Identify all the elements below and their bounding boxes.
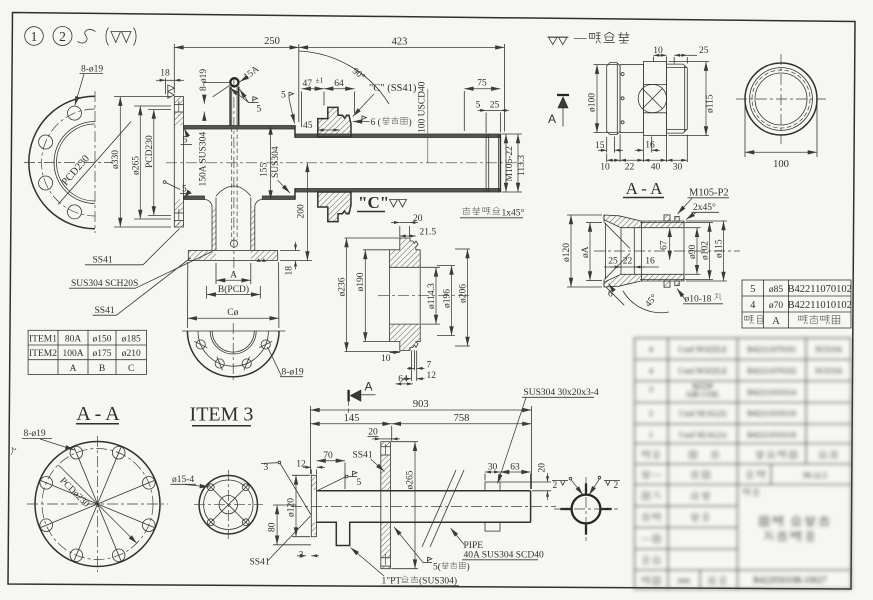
svg-text:7: 7 (427, 361, 432, 371)
label PIPE (451, 528, 544, 561)
svg-text:22: 22 (623, 257, 633, 267)
svg-text:5(: 5( (433, 562, 441, 573)
title A - A top (623, 179, 664, 198)
svg-text:5: 5 (183, 136, 188, 146)
coupling side view part4 thread end (667, 64, 688, 133)
svg-text:64: 64 (398, 374, 408, 384)
dim o102 (685, 223, 713, 280)
tee flange bottom view top edge (182, 330, 286, 332)
svg-text:5: 5 (182, 185, 187, 195)
svg-text:AIR COIL: AIR COIL (685, 390, 720, 399)
branch left wall (205, 198, 217, 251)
blurred CJK blobs (642, 451, 839, 585)
svg-text:SS41: SS41 (353, 451, 373, 461)
svg-text:SUS304 SCH20S: SUS304 SCH20S (71, 279, 138, 289)
svg-text:1x45°: 1x45° (502, 208, 525, 219)
8 bolt holes (40, 446, 155, 561)
svg-text:150A SUS304: 150A SUS304 (199, 132, 209, 187)
svg-text:SUS316: SUS316 (815, 345, 842, 354)
svg-text:10: 10 (600, 163, 610, 173)
svg-text:64: 64 (334, 79, 344, 89)
title C (357, 193, 389, 212)
tee flange bolt circle arc (198, 331, 268, 366)
finish symbol (vv) (106, 28, 136, 46)
svg-text:1: 1 (649, 431, 653, 440)
150A pipe top wall (184, 126, 296, 130)
label 8-o19 vertical (199, 69, 230, 121)
svg-text:Cool NOZZLE: Cool NOZZLE (678, 345, 727, 354)
weld flange plate (174, 97, 183, 227)
dim o330 (111, 97, 171, 227)
label M105-P2 (678, 188, 730, 215)
title A-A bottom left (76, 403, 120, 425)
C-section flange body outline top (390, 238, 421, 267)
svg-text:Cool NOZZLE: Cool NOZZLE (678, 367, 727, 376)
balloon 1 (25, 27, 44, 46)
label SS41 upper (85, 229, 180, 266)
svg-text:B42211070102: B42211070102 (747, 367, 796, 376)
svg-text:2: 2 (59, 29, 66, 44)
label SS41 item3 (353, 451, 385, 472)
label SS41 bottom (250, 516, 311, 568)
150A pipe bottom wall right (262, 196, 295, 200)
dim 67 (659, 228, 669, 260)
svg-text:ø85: ø85 (769, 285, 784, 295)
svg-text:8-ø19: 8-ø19 (282, 368, 304, 378)
svg-text:4: 4 (649, 367, 653, 376)
svg-text:PCD230: PCD230 (145, 135, 155, 168)
svg-text:B42211010114: B42211010114 (747, 388, 796, 397)
dim o120 (562, 215, 602, 287)
left flange bore arc (56, 124, 95, 201)
svg-text:PIPE: PIPE (464, 541, 484, 551)
svg-text:80: 80 (268, 522, 278, 532)
svg-text:B42205010B-10027: B42205010B-10027 (753, 575, 827, 585)
coupling face view (736, 54, 826, 144)
label 5 left-right-open (394, 527, 470, 573)
label 100 USCD40 (418, 81, 428, 162)
weld label 5 at reducer (281, 91, 295, 124)
label SUS304 with leader (271, 146, 290, 193)
knurl circle X (638, 84, 666, 112)
svg-text:ø15-4: ø15-4 (172, 475, 194, 485)
dims 47 64 (302, 76, 355, 128)
support bracket C top (318, 107, 351, 137)
svg-text:mm: mm (678, 576, 691, 585)
C-section centerline (378, 295, 471, 297)
bolt hole 247.5deg (68, 205, 82, 219)
dim 16 (635, 137, 660, 153)
svg-text:10: 10 (381, 354, 391, 364)
item3 big flange (381, 442, 391, 569)
svg-text:20: 20 (368, 428, 378, 438)
dim o115 (669, 62, 716, 136)
svg-text:ø210: ø210 (122, 349, 141, 359)
finish marks after C (390, 200, 407, 208)
svg-text:ø115: ø115 (714, 239, 724, 258)
svg-text:ITEM 3: ITEM 3 (190, 404, 254, 426)
AA thread bumps (664, 215, 679, 287)
C-section bore sides (389, 267, 391, 324)
dim o265 (131, 106, 171, 219)
svg-text:): ) (467, 562, 470, 573)
dim 12 (296, 460, 325, 475)
bolt hole 22.5 (259, 340, 272, 349)
note chamfer 1x45 (460, 207, 525, 219)
svg-text:C: C (128, 364, 134, 374)
dim o90 (685, 228, 701, 275)
svg-text:ø265: ø265 (131, 156, 141, 175)
svg-text:"C": "C" (358, 193, 389, 212)
svg-text:Cool SEAL(2): Cool SEAL(2) (679, 409, 726, 418)
svg-text:25: 25 (608, 257, 618, 267)
label 1 PT thread (351, 548, 460, 587)
svg-text:5: 5 (357, 478, 362, 488)
dim 155 (260, 126, 271, 200)
item3 centerline (291, 506, 556, 508)
svg-text:ø206: ø206 (458, 284, 468, 303)
svg-text:70: 70 (323, 451, 333, 461)
svg-text:A: A (70, 364, 77, 374)
left flange front view outer arc (29, 96, 95, 228)
tee saddle dome (216, 186, 251, 196)
svg-text:ø114.3: ø114.3 (427, 283, 437, 309)
branch bottom center hole (230, 240, 237, 247)
svg-text:(SUS304): (SUS304) (419, 576, 457, 587)
weld label 5 upper at flange (181, 128, 193, 145)
label 8-o19 lower (268, 347, 304, 378)
dim 7 (407, 361, 432, 371)
general tolerance finish symbol (548, 37, 569, 44)
dim 25 top (674, 46, 709, 64)
svg-text:155: 155 (260, 163, 270, 178)
150A pipe bottom wall left (184, 196, 205, 200)
left flange centerline vertical (94, 91, 96, 233)
svg-text:80A: 80A (65, 335, 82, 345)
break lines (422, 470, 456, 547)
item3 pipe bottom with PT boss (317, 522, 531, 545)
pipe end face (499, 134, 501, 192)
support bracket C bottom (318, 192, 351, 222)
svg-text:12: 12 (427, 371, 437, 381)
svg-text:B42211010102: B42211010102 (788, 300, 852, 311)
tee flange center dash (232, 323, 234, 382)
svg-text:12: 12 (296, 460, 306, 470)
hidden bore lines in branch (231, 128, 233, 241)
PCD radial line (58, 122, 131, 205)
item3 pipe end face (530, 491, 532, 523)
label 8-o19 (22, 429, 75, 450)
svg-text:SS41: SS41 (93, 256, 113, 266)
balloon 2 (53, 27, 72, 46)
svg-text:B42211070102: B42211070102 (788, 284, 852, 295)
svg-text:2: 2 (553, 481, 558, 491)
chain dims 10 22 40 30 (600, 134, 687, 173)
dim o265 item3 (392, 442, 419, 569)
svg-text:5: 5 (281, 91, 286, 101)
100A pipe top wall (295, 134, 500, 138)
label 8-o19 (75, 65, 104, 106)
AA inner cone seat lines (605, 223, 631, 249)
svg-text:ø102: ø102 (700, 241, 710, 260)
svg-text:A: A (230, 271, 237, 281)
AA bore lines o102 (640, 222, 684, 224)
left flange bolt circle dashed (42, 109, 96, 216)
svg-text:6 (: 6 ( (371, 117, 381, 128)
svg-text:5: 5 (750, 284, 755, 295)
crosshairs (27, 503, 168, 505)
svg-text:B42211010118: B42211010118 (747, 431, 796, 440)
dim 3 bottom (297, 551, 319, 561)
dim 75 (464, 79, 500, 132)
dim 18 flange (156, 69, 184, 95)
svg-text:2x45°: 2x45° (693, 202, 716, 213)
note general tolerance CJK (574, 32, 629, 43)
datum mark B triangles (168, 85, 175, 98)
svg-text:ø115: ø115 (705, 94, 715, 113)
dim o206 (455, 249, 470, 346)
svg-text:18: 18 (285, 266, 295, 276)
svg-text:100A: 100A (62, 349, 83, 359)
dim o115 (686, 221, 727, 281)
svg-text:SUS316: SUS316 (815, 367, 842, 376)
svg-text:30: 30 (673, 163, 683, 173)
dim 3 top (261, 461, 311, 514)
svg-text:20: 20 (413, 214, 423, 224)
extension stubs below (410, 351, 412, 382)
dim 20 hub (391, 214, 423, 237)
svg-text:2: 2 (649, 409, 653, 418)
svg-text:ø70: ø70 (769, 301, 784, 311)
svg-text:99.12.5: 99.12.5 (803, 471, 827, 480)
bolt hole 157.5deg (39, 135, 53, 149)
tee flange bore arcs (210, 331, 256, 354)
svg-text:10: 10 (653, 46, 663, 56)
AA section top wall (604, 215, 684, 228)
svg-text:1"PT: 1"PT (382, 577, 402, 587)
item3 pipe top (317, 490, 531, 492)
svg-text:200: 200 (297, 204, 307, 219)
branch right wall (251, 198, 262, 251)
title block frame (635, 338, 852, 589)
dims 30 63 (485, 462, 531, 489)
weld leader nipple (213, 85, 262, 114)
svg-text:A - A: A - A (626, 179, 664, 198)
svg-text:75: 75 (477, 79, 487, 89)
svg-text:90°: 90° (350, 66, 367, 83)
svg-text:M105-22: M105-22 (505, 146, 515, 182)
branch centerline (233, 77, 235, 274)
tee flange bottom view outer arc (187, 331, 279, 377)
dim 80 item3 (268, 505, 312, 545)
svg-text:ø120: ø120 (286, 498, 296, 517)
svg-text:4: 4 (649, 345, 653, 354)
label C SS41 (353, 83, 417, 117)
svg-text:22: 22 (625, 163, 635, 173)
coupling side view main body (643, 62, 666, 136)
bolt hole 112.5deg (68, 106, 82, 120)
title ITEM 3 (190, 404, 254, 426)
svg-text:Cø: Cø (227, 308, 238, 318)
svg-text:3: 3 (264, 463, 269, 473)
dim 250 (174, 36, 298, 122)
svg-text:Cool SEAL(1): Cool SEAL(1) (679, 431, 726, 440)
AA left face edges (603, 215, 605, 223)
dim 70 (317, 451, 346, 489)
svg-text:A: A (772, 316, 780, 327)
label 15A (240, 64, 262, 82)
label SUS304 30x20x3-4 (498, 388, 599, 484)
svg-text:ø265: ø265 (405, 470, 415, 489)
big flange bolt circle dashed (42, 449, 153, 560)
dim 423 (299, 37, 505, 132)
dim o236 (337, 238, 400, 352)
weld 5 at item3 flange (318, 471, 362, 490)
bolt hole 112.5 (215, 357, 224, 370)
svg-text:SUS304 30x20x3-4: SUS304 30x20x3-4 (524, 388, 599, 398)
dim oA (581, 223, 602, 281)
bolt hole 67.5 (242, 357, 251, 370)
finish symbol S-curve (78, 30, 96, 43)
dim 903 (310, 399, 531, 489)
label 2x45 (686, 202, 719, 220)
svg-text:ø10-18: ø10-18 (685, 295, 712, 305)
svg-text:16: 16 (645, 257, 655, 267)
branch bottom flange (188, 250, 277, 260)
svg-text:8-ø19: 8-ø19 (81, 65, 103, 75)
svg-text:67: 67 (659, 240, 669, 250)
dims 25 22 16 (604, 223, 659, 279)
svg-text:ITEM1: ITEM1 (29, 335, 57, 345)
dim A (216, 263, 251, 284)
coupling side view part2 (620, 65, 643, 133)
item3 small flange plate (311, 475, 316, 536)
C-section flange body outline bottom (390, 324, 421, 350)
left flange raised face arc (54, 122, 95, 204)
AA internal verticals (620, 228, 622, 275)
svg-text:15: 15 (595, 141, 605, 151)
bolt hole 157.5 (194, 340, 207, 349)
svg-text:A: A (548, 112, 556, 126)
svg-text:"C" (SS41): "C" (SS41) (369, 83, 417, 94)
svg-text:3: 3 (649, 385, 653, 394)
weld labels 2 at end view (552, 477, 583, 495)
svg-text:40A SUS304 SCD40: 40A SUS304 SCD40 (464, 551, 544, 561)
section arrow A up (548, 95, 569, 127)
label SS41 lower (93, 258, 191, 316)
big flange AA view outer circle (35, 442, 160, 567)
svg-text:B42211010116: B42211010116 (747, 409, 796, 418)
svg-text:): ) (409, 117, 412, 128)
svg-text:20: 20 (538, 463, 548, 473)
90 degree arc (299, 51, 389, 104)
parts table (742, 280, 852, 328)
label o10-18 holes (677, 289, 723, 305)
15A nipple (230, 78, 239, 125)
svg-text:SUS304: SUS304 (271, 146, 281, 178)
svg-text:M105-P2: M105-P2 (689, 188, 729, 199)
svg-text:A - A: A - A (76, 403, 120, 425)
svg-text:113.3: 113.3 (517, 155, 527, 176)
svg-text:1: 1 (31, 29, 38, 44)
end view circle (554, 477, 618, 541)
svg-text:903: 903 (413, 399, 429, 410)
svg-text:A: A (365, 380, 373, 394)
dim PCD230 side (145, 110, 171, 216)
svg-text:øA: øA (581, 246, 591, 258)
svg-text:15A: 15A (242, 64, 261, 82)
svg-text:25: 25 (490, 101, 500, 111)
dim M105-22 (502, 134, 528, 192)
dim 21.5 (400, 228, 437, 238)
dim o196 (437, 266, 455, 336)
svg-text:ø236: ø236 (337, 277, 347, 296)
svg-text:423: 423 (392, 37, 408, 48)
reducer butt joint (294, 126, 296, 138)
svg-text:ø330: ø330 (111, 150, 121, 169)
dim 15 (595, 137, 623, 153)
section arrow A bottom (349, 380, 376, 415)
svg-text:16: 16 (645, 140, 655, 150)
svg-text:5: 5 (476, 101, 481, 111)
main pipe centerline (166, 162, 524, 164)
coupling side view part1 flare (607, 63, 620, 135)
label o15-4 (171, 475, 210, 487)
svg-text:4: 4 (750, 300, 756, 311)
dim o120 item3 (286, 475, 310, 536)
svg-text:100 USCD40: 100 USCD40 (418, 81, 428, 133)
100A pipe bottom wall (295, 189, 500, 193)
dim o114.3 (421, 267, 440, 324)
dim 45 bracket (303, 121, 339, 131)
dim 100 face view (745, 104, 817, 170)
AA section bottom wall (604, 274, 684, 287)
svg-text:SS41: SS41 (250, 558, 270, 568)
svg-text:ø90: ø90 (688, 245, 698, 260)
svg-text:45°: 45° (643, 292, 660, 309)
svg-text:SS41: SS41 (95, 306, 115, 316)
svg-text:B42211070101: B42211070101 (747, 345, 796, 354)
dims 5 25 at pipe end (476, 101, 509, 134)
left flange centerline horizontal (24, 162, 113, 164)
svg-text:758: 758 (454, 413, 470, 424)
AA section centerline (594, 250, 740, 252)
svg-text:25: 25 (699, 46, 709, 56)
svg-text:30: 30 (488, 462, 498, 472)
svg-text:ø120: ø120 (562, 243, 572, 262)
svg-text:18: 18 (160, 69, 170, 79)
bolt hole 202.5deg (39, 176, 53, 190)
svg-text:2: 2 (614, 481, 619, 491)
svg-text:B(PCD): B(PCD) (218, 284, 249, 295)
dim o100 (588, 65, 617, 133)
blurred big title lines (760, 516, 829, 541)
dim 200 (280, 163, 312, 261)
weld label 5 lower at flange (163, 181, 191, 199)
dim 12 (403, 371, 436, 381)
stray pencil mark (11, 447, 16, 455)
radial spokes (41, 447, 155, 561)
svg-text:5: 5 (257, 105, 262, 115)
svg-text:145: 145 (344, 413, 360, 424)
dim 10 top (653, 46, 666, 64)
svg-text:ITEM2: ITEM2 (29, 349, 57, 359)
item3 small flange face view (194, 470, 263, 539)
PCD dimension diagonal (59, 465, 137, 543)
right brackets 30x20 (485, 482, 500, 491)
dim C dia (188, 262, 279, 328)
dim 64 (395, 374, 413, 384)
